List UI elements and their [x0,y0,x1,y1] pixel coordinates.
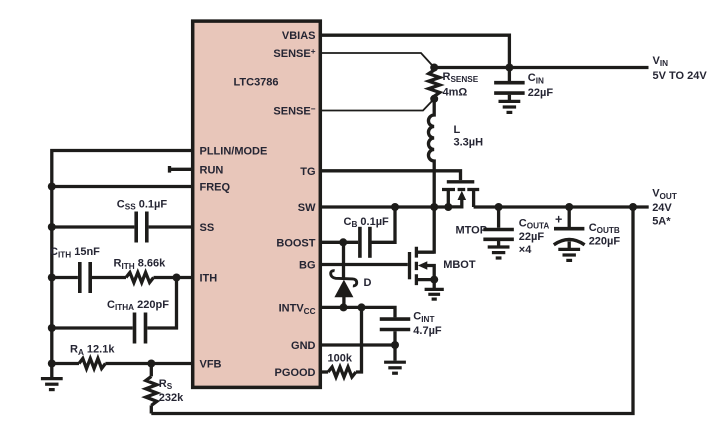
node 100k rail/INTVCC junction [358,303,366,311]
svg-text:FREQ: FREQ [200,182,231,194]
wire rail to RA [52,362,79,365]
diode D cathode curve [331,271,357,286]
wire ITH left segment [52,276,78,279]
resistor RS [146,376,157,405]
wire BOOST to CB [320,241,358,244]
wire VOUT rail [474,205,649,208]
capacitor CINT plates [380,317,411,321]
svg-text:22µF: 22µF [519,231,545,243]
svg-text:+: + [555,213,562,227]
svg-text:5A*: 5A* [652,216,671,228]
inductor L and wire to MBOT drain [416,99,434,252]
wire RITH to ITH pin [154,276,193,279]
wire CITH to RITH [92,276,126,279]
capacitor CITHA plates [133,313,137,344]
svg-text:×4: ×4 [519,244,532,256]
svg-text:RITH 8.66k: RITH 8.66k [114,258,167,271]
svg-text:VOUT: VOUT [652,188,677,201]
svg-text:LTC3786: LTC3786 [234,77,279,89]
svg-text:3.3µH: 3.3µH [454,137,484,149]
wire SW node [320,205,448,208]
wire COUTA stubs [497,207,500,246]
wire TG to MTOP gate [320,171,461,180]
node SS junction [48,223,56,231]
ground COUTB [558,248,580,251]
svg-text:232k: 232k [159,392,184,404]
wire CITHA to ITH junction [147,278,176,329]
svg-text:MTOP: MTOP [456,225,488,237]
wire 100k to INTVCC rail [356,307,362,372]
svg-text:4mΩ: 4mΩ [443,86,468,98]
svg-text:RUN: RUN [200,164,224,176]
wire COUTB stubs [568,207,571,248]
svg-text:D: D [364,277,372,289]
svg-text:COUTB: COUTB [589,222,620,235]
svg-text:VFB: VFB [200,359,222,371]
ground left rail [41,377,63,380]
svg-text:CITH 15nF: CITH 15nF [50,246,100,259]
svg-text:PLLIN/MODE: PLLIN/MODE [200,146,268,158]
ground GND/CINT [384,361,406,364]
svg-text:ITH: ITH [200,273,218,285]
node RSENSE top junction [430,64,438,72]
svg-text:SENSE−: SENSE− [273,104,315,117]
node CB riser junction [391,203,399,211]
ground COUTA [488,245,510,248]
transistor MTOP body lead [448,199,462,207]
wire PLLIN/MODE and left rail [52,151,192,378]
wire RUN stub [170,168,193,171]
ground MBOT [425,288,444,291]
capacitor COUTA plates [483,228,513,232]
svg-text:RA 12.1k: RA 12.1k [70,344,115,357]
node MBOT source junction [430,276,438,284]
node RA rail junction [48,360,56,368]
transistor MTOP channel segments [442,188,479,191]
svg-text:220µF: 220µF [589,236,621,248]
svg-text:SS: SS [200,222,215,234]
node ITH junction [48,274,56,282]
wire RSENSE leads [433,68,436,99]
svg-text:CB 0.1µF: CB 0.1µF [344,216,390,229]
wire GND pin [320,343,395,346]
svg-text:100k: 100k [328,353,353,365]
svg-text:PGOOD: PGOOD [275,367,316,379]
capacitor CITH plates [78,262,82,293]
wire SS right segment [149,225,192,228]
capacitor COUTB curved plate [554,240,585,245]
svg-text:VIN: VIN [653,55,669,68]
node CITHA junction [48,324,56,332]
transistor MTOP body arrow [458,191,467,200]
op-amp U1 LTC3786 controller body [193,21,321,387]
wire SENSE+ (thin) [320,53,434,68]
wire FREQ [52,185,192,188]
capacitor CSS plates [134,212,138,243]
resistor RSENSE [429,70,440,96]
wire RUN stub end tick [168,166,171,173]
ground CIN [499,100,521,103]
transistor MBOT channel segments [415,247,418,285]
svg-text:BG: BG [299,260,316,272]
wire diode anode to INTVCC [342,295,345,307]
wire SS left segment [52,225,135,228]
svg-text:COUTA: COUTA [519,217,550,230]
svg-text:MBOT: MBOT [443,259,476,271]
transistor MBOT body arrow [418,261,427,270]
svg-text:CSS 0.1µF: CSS 0.1µF [117,198,168,211]
node MTOP source junction [444,203,452,211]
resistor RA [79,359,105,369]
wire RS leads [150,364,153,414]
svg-text:22µF: 22µF [528,87,554,99]
resistor RITH [126,273,154,283]
svg-text:SENSE+: SENSE+ [273,47,315,60]
diode D anode triangle [334,280,353,298]
node diode/INTVCC junction [340,303,348,311]
svg-text:CITHA 220pF: CITHA 220pF [107,299,169,312]
transistor MBOT drain lead [416,250,434,253]
wire VOUT right rail down and bottom feedback run [151,207,633,414]
wire CIN stub [508,68,511,101]
node ITH/CITHA junction [173,274,181,282]
svg-text:CINT: CINT [413,310,434,323]
wire CINT bottom stub [393,331,396,345]
wire SENSE- (thin) [320,99,434,111]
wire VIN rail [434,66,648,69]
capacitor COUTB top plate [554,227,584,231]
node inductor/SW junction [430,203,438,211]
capacitor CB plates [358,227,362,258]
svg-text:RSENSE: RSENSE [443,71,479,84]
node COUTB junction [565,203,573,211]
node RSENSE bottom junction [430,95,438,103]
node COUTA junction [495,203,503,211]
svg-text:5V TO 24V: 5V TO 24V [653,70,708,82]
transistor MTOP gate bar [447,180,475,183]
wire CITHA left segment [52,326,133,329]
wire GND to ground symbol [393,345,396,361]
svg-text:BOOST: BOOST [276,238,315,250]
svg-text:GND: GND [291,340,316,352]
svg-text:L: L [454,124,461,136]
svg-text:CIN: CIN [528,72,544,85]
svg-text:TG: TG [300,166,315,178]
svg-text:VBIAS: VBIAS [282,30,316,42]
wire MBOT source to ground [433,280,436,288]
transistor MBOT source lead [416,278,434,281]
capacitor CIN plates [494,81,525,85]
node VFB/RS junction [147,360,155,368]
transistor MBOT gate bar [408,252,411,279]
svg-text:SW: SW [298,202,316,214]
resistor 100k [328,367,356,377]
transistor MTOP drain lead [447,190,450,208]
wire PGOOD stub [320,370,328,373]
wire INTVCC [320,307,395,317]
wire BG to MBOT gate [320,263,408,266]
transistor MBOT body lead [427,266,435,280]
svg-text:4.7µF: 4.7µF [413,325,442,337]
node VOUT corner junction [629,203,637,211]
node GND/CINT junction [391,341,399,349]
wire CB to SW riser [372,207,396,242]
node BOOST diode junction [339,238,347,246]
svg-text:RS: RS [159,378,173,391]
wire BOOST junction to diode cathode [342,242,345,278]
svg-text:24V: 24V [652,202,672,214]
transistor MTOP source lead [472,190,475,208]
wire VBIAS to VIN node [320,35,509,67]
node FREQ junction [48,183,56,191]
wire RA to VFB pin [105,362,192,365]
node VIN / CIN junction [505,64,513,72]
